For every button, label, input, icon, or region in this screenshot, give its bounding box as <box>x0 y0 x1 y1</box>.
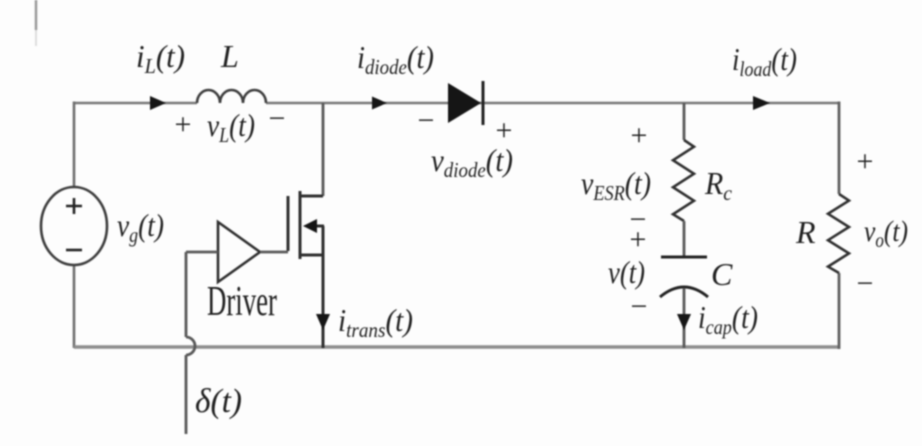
svg-text:iL(t): iL(t) <box>136 38 185 78</box>
svg-text:Driver: Driver <box>207 279 277 325</box>
arrow iload <box>753 96 770 110</box>
transistor Q1 (MOSFET) <box>288 191 324 348</box>
delta wire lower <box>185 355 188 434</box>
svg-text:−: − <box>631 290 648 323</box>
drain lead <box>300 195 323 198</box>
wire bottom <box>74 345 839 349</box>
wire left upper <box>73 102 76 189</box>
svg-text:iload(t): iload(t) <box>732 41 797 81</box>
svg-text:+: + <box>175 108 192 141</box>
driver output wire <box>260 251 288 254</box>
edge artifact line top-left <box>35 0 38 30</box>
svg-text:itrans(t): itrans(t) <box>338 302 413 342</box>
svg-text:δ(t): δ(t) <box>195 383 242 420</box>
wire right upper <box>838 102 841 195</box>
svg-text:vL(t): vL(t) <box>207 107 255 147</box>
svg-text:+: + <box>857 145 874 178</box>
capacitor C bottom curved plate <box>660 287 708 297</box>
wire left lower <box>73 264 76 348</box>
wire right lower <box>838 273 841 349</box>
svg-text:+: + <box>496 114 513 147</box>
wire mosfet drain drop <box>322 103 325 196</box>
svg-text:vo(t): vo(t) <box>864 215 908 252</box>
svg-text:vESR(t): vESR(t) <box>581 165 651 205</box>
svg-text:L: L <box>220 38 239 74</box>
svg-text:C: C <box>711 256 733 292</box>
channel bar <box>299 191 302 259</box>
svg-text:icap(t): icap(t) <box>698 299 758 339</box>
diode D1 <box>448 83 481 123</box>
op-amp driver triangle <box>218 222 260 282</box>
arrow iL <box>150 96 166 110</box>
arrow idiode <box>372 97 387 110</box>
svg-text:+: + <box>631 119 648 152</box>
wire Rc to cap <box>683 221 686 257</box>
svg-text:R: R <box>795 214 816 250</box>
svg-text:−: − <box>269 102 286 135</box>
resistor R load <box>828 194 849 273</box>
source/body vertical <box>322 226 325 348</box>
svg-text:Rc: Rc <box>704 165 733 205</box>
source lead <box>300 254 323 257</box>
body arrowhead <box>303 219 317 233</box>
svg-text:−: − <box>418 104 435 137</box>
voltage source Vg <box>41 187 107 265</box>
svg-text:−: − <box>857 267 874 300</box>
wire hop over bottom wire <box>186 337 195 355</box>
minus sign inside source <box>66 249 82 252</box>
svg-text:v(t): v(t) <box>608 254 645 290</box>
capacitor C top plate <box>661 256 707 259</box>
body lead <box>312 225 324 228</box>
delta wire upper <box>185 252 188 337</box>
wire Rc top lead <box>683 103 686 140</box>
itrans arrowhead <box>316 314 330 330</box>
icap arrowhead <box>677 314 691 330</box>
svg-text:idiode(t): idiode(t) <box>357 39 434 79</box>
svg-text:vg(t): vg(t) <box>117 207 164 247</box>
diode cathode bar <box>482 81 485 125</box>
svg-text:+: + <box>630 223 647 256</box>
inductor L <box>197 90 266 103</box>
resistor Rc <box>673 140 694 221</box>
wire top right segment <box>266 102 839 105</box>
wire cap bottom lead <box>683 288 686 348</box>
plus sign inside source <box>66 198 82 214</box>
svg-text:vdiode(t): vdiode(t) <box>431 142 513 182</box>
gate bar <box>287 196 290 251</box>
driver input wire <box>186 251 218 254</box>
wire top left segment <box>74 102 197 105</box>
